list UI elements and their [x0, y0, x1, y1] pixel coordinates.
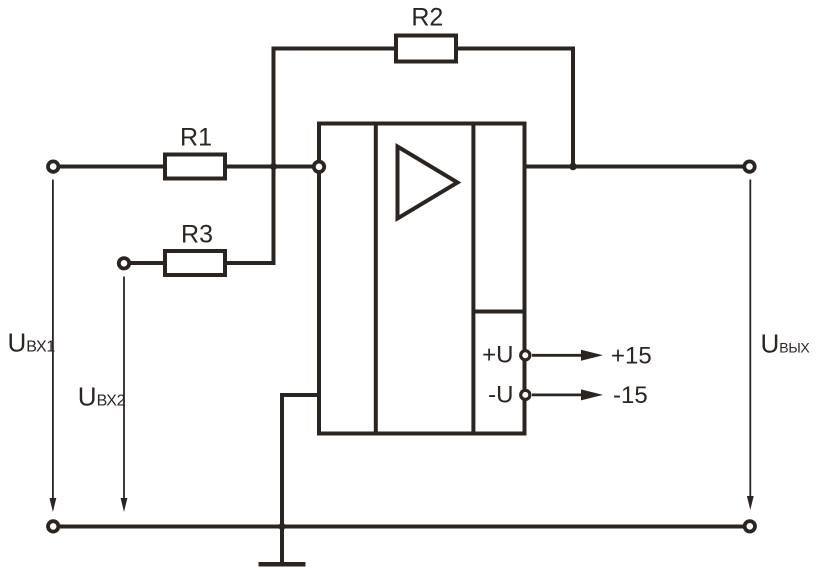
op-amp power section divider [473, 310, 524, 314]
wire R3 to feedback node vertical [223, 261, 274, 265]
node inverting input [314, 162, 324, 172]
junction feedback node [270, 163, 277, 170]
wire op-amp output to output terminal [523, 165, 750, 169]
ground [259, 562, 306, 567]
svg-text:-U: -U [488, 381, 513, 408]
wire R1 to op-amp inverting input [223, 165, 319, 169]
junction output node [569, 163, 577, 171]
wire feedback left vertical [274, 49, 397, 266]
terminal input 2 [119, 258, 129, 268]
wire input2 to R3 [124, 261, 167, 265]
wire non-inverting input to ground [282, 395, 319, 564]
op-amp right internal divider [471, 122, 475, 436]
wire input1 to R1 [53, 165, 167, 169]
arrow Uvx1 [50, 180, 57, 513]
wire bottom common rail [53, 525, 750, 529]
svg-text:R2: R2 [411, 4, 443, 32]
resistor R2 [396, 36, 456, 62]
terminal input 1 [48, 161, 58, 171]
arrow Uvx2 [121, 277, 128, 513]
terminal output [744, 161, 754, 171]
terminal bottom right [745, 521, 755, 531]
junction ground rail [278, 523, 285, 530]
svg-text:R3: R3 [181, 221, 213, 249]
resistor R1 [165, 155, 225, 179]
resistor R3 [165, 251, 225, 275]
arrow +15 supply [532, 350, 603, 361]
pin +U [521, 351, 530, 360]
op-amp amplifier triangle [398, 147, 458, 219]
op-amp U1 body [319, 124, 525, 434]
svg-text:R1: R1 [180, 124, 212, 152]
op-amp left internal divider [374, 122, 378, 436]
terminal bottom left [48, 521, 58, 531]
svg-text:+U: +U [482, 342, 513, 369]
svg-text:+15: +15 [611, 343, 652, 370]
wire R2 to output vertical [456, 49, 573, 167]
arrow Uvyx [747, 180, 754, 511]
arrow -15 supply [532, 389, 603, 400]
svg-text:-15: -15 [613, 382, 648, 409]
pin -U [521, 390, 530, 399]
